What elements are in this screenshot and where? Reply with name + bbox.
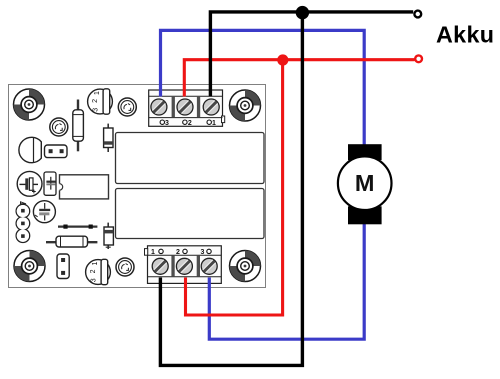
wire red top: X1-2 to battery + xyxy=(184,60,414,97)
jumper J3 (vertical 2-pad) xyxy=(57,254,69,279)
relay K1 xyxy=(116,133,265,184)
mounting hole bottom-right xyxy=(230,251,261,282)
capacitor C1 (electrolytic) xyxy=(17,171,42,196)
IC U1 xyxy=(58,175,109,199)
mounting hole top-left xyxy=(14,89,45,120)
transistor Q3 (D-shape) xyxy=(19,137,41,162)
wire black branch: node to X2-1 xyxy=(160,12,302,366)
svg-text:1: 1 xyxy=(212,120,216,127)
label 2 (top block) xyxy=(183,120,192,127)
wire link W1 xyxy=(58,225,97,229)
label 3 (bottom block) xyxy=(201,249,212,256)
label 2 (bottom block) xyxy=(176,249,187,256)
screw terminal X2-1 xyxy=(152,258,168,274)
label 1 (bottom block) xyxy=(151,249,163,256)
wire blue bottom: motor - to X2-3 xyxy=(209,212,364,339)
trimmer P2 (bottom, 321) xyxy=(86,259,111,284)
transistor Q4 (bottom round) xyxy=(116,258,134,276)
motor M xyxy=(338,144,392,224)
header J2 (3-pin) xyxy=(16,202,30,243)
svg-text:3: 3 xyxy=(201,249,205,256)
resistor R1 (vertical) xyxy=(73,100,84,152)
battery terminal minus (open circle) xyxy=(414,11,421,18)
svg-text:Akku: Akku xyxy=(436,22,494,48)
screw terminal X1-2 xyxy=(177,99,193,115)
screw terminal X1-3 xyxy=(151,99,167,115)
screw terminal X2-3 xyxy=(201,258,217,274)
capacitor C3 (ceramic round) xyxy=(33,201,55,223)
label 3 (top block) xyxy=(160,120,169,127)
PCB board outline xyxy=(9,85,266,288)
svg-text:3: 3 xyxy=(165,120,169,127)
wire black top: X1-1 to battery - xyxy=(210,12,413,97)
capacitor C2 (box) xyxy=(44,172,56,195)
terminal block X1 (top) xyxy=(149,90,225,126)
wire blue top: X1-3 to motor + xyxy=(161,30,365,158)
node red junction xyxy=(277,54,288,65)
svg-text:2: 2 xyxy=(188,120,192,127)
label 1 (top block) xyxy=(207,120,216,127)
svg-text:M: M xyxy=(355,170,375,196)
battery terminal plus (open circle) xyxy=(415,55,422,62)
jumper J1 (horizontal 2-pad) xyxy=(45,145,68,158)
relay K2 xyxy=(116,189,265,239)
wire red branch: node to X2-2 xyxy=(186,60,283,315)
transistor Q2 (top-right round) xyxy=(118,98,136,116)
screw terminal X1-1 xyxy=(203,99,219,115)
resistor R2 (horizontal) xyxy=(46,236,97,247)
mounting hole bottom-left xyxy=(14,251,45,282)
transistor Q1 (top-left round) xyxy=(50,118,68,136)
svg-text:2: 2 xyxy=(176,249,180,256)
node black junction xyxy=(296,6,309,19)
diode D2 xyxy=(104,223,113,249)
diode D1 xyxy=(104,124,113,152)
terminal block X2 (bottom) xyxy=(145,246,222,284)
mounting hole top-right xyxy=(230,90,261,121)
screw terminal X2-2 xyxy=(176,258,192,274)
trimmer P1 (top, 321) xyxy=(88,89,113,114)
svg-text:1: 1 xyxy=(151,249,155,256)
